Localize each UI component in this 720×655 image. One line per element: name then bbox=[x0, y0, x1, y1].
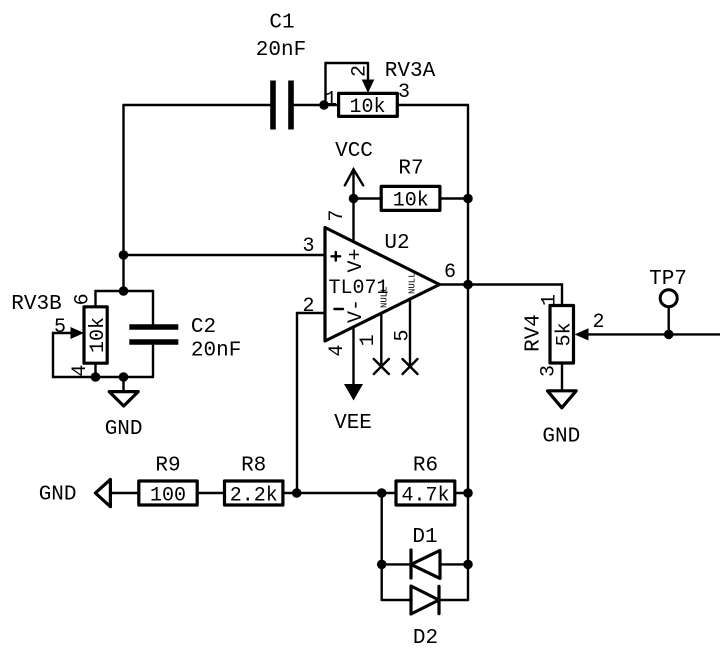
plus mark non-inverting input bbox=[332, 252, 341, 261]
wire left vertical from top corner down to input node bbox=[122, 105, 124, 291]
svg-text:C2: C2 bbox=[191, 316, 216, 339]
svg-text:TP7: TP7 bbox=[649, 268, 687, 291]
node junction C1 / RV3A pins 1-2 bbox=[319, 100, 329, 110]
wire C1 right plate to RV3A pin 1 node bbox=[294, 104, 339, 106]
node junction TP7 / wiper wire bbox=[664, 330, 674, 340]
svg-text:1: 1 bbox=[357, 334, 380, 346]
wire RV4 pin 3 stub bbox=[561, 363, 563, 391]
potentiometer RV4 bbox=[550, 306, 589, 364]
no-connect X on pin 1 bbox=[374, 359, 389, 374]
wire op-amp pin 4 down to VEE bbox=[352, 327, 354, 385]
ground symbol left GND bbox=[105, 392, 143, 441]
resistor R9 bbox=[139, 481, 197, 505]
svg-text:GND: GND bbox=[39, 484, 77, 507]
svg-text:2: 2 bbox=[349, 65, 372, 77]
wire op-amp pin 2 stub bbox=[297, 312, 325, 314]
node junction R6 left / diode branch bbox=[377, 488, 387, 498]
svg-text:V+: V+ bbox=[345, 248, 368, 272]
wire R9 to R8 bbox=[197, 492, 224, 494]
svg-text:R6: R6 bbox=[413, 455, 438, 478]
wire bottom rail to C2 bbox=[96, 376, 154, 378]
wire GND stub left bbox=[122, 377, 124, 392]
svg-text:C1: C1 bbox=[269, 12, 294, 35]
node junction GND stub on bottom rail bbox=[119, 372, 129, 382]
svg-text:R7: R7 bbox=[398, 158, 423, 181]
svg-text:3: 3 bbox=[398, 81, 410, 104]
wire TP7 stub bbox=[668, 307, 670, 334]
wire D2 right connection bbox=[439, 599, 468, 601]
svg-text:GND: GND bbox=[542, 426, 580, 449]
svg-text:5: 5 bbox=[54, 316, 66, 339]
wire GND flag to R9 bbox=[110, 492, 138, 494]
potentiometer RV3B bbox=[71, 307, 108, 363]
wire top-left horizontal from left vertical to C1 bbox=[124, 104, 271, 106]
wire op-amp pin 3 input bbox=[124, 254, 326, 256]
ground symbol right GND bbox=[542, 391, 580, 449]
svg-text:V-: V- bbox=[345, 299, 368, 323]
svg-text:4: 4 bbox=[69, 365, 92, 377]
resistor R6 bbox=[396, 481, 455, 505]
svg-text:4: 4 bbox=[326, 344, 349, 356]
node junction D1 right bbox=[463, 560, 473, 570]
svg-text:R9: R9 bbox=[155, 455, 180, 478]
minus mark inverting input bbox=[334, 308, 343, 310]
ground flag bottom-left GND bbox=[39, 479, 111, 506]
wire C2 bottom stub bbox=[152, 345, 154, 377]
wire RV3A pin 3 to right vertical net bbox=[397, 104, 468, 106]
svg-text:RV4: RV4 bbox=[523, 314, 546, 352]
wire D1 left stub bbox=[382, 563, 411, 565]
svg-text:D1: D1 bbox=[412, 526, 437, 549]
node junction R7 / right vertical bbox=[463, 194, 473, 204]
wire R7 to right vertical net bbox=[440, 197, 468, 199]
wire top rail RV3B / C2 bbox=[96, 290, 154, 292]
diode D1 bbox=[411, 550, 440, 578]
wire RV3A wiper loop: horizontal top bbox=[326, 62, 369, 64]
node junction R6 right / right vertical bbox=[463, 488, 473, 498]
svg-text:10k: 10k bbox=[393, 190, 429, 213]
test point TP7 bbox=[649, 268, 687, 307]
wire VCC node to R7 bbox=[354, 197, 382, 199]
wire RV3B pin 4 stub bbox=[94, 363, 96, 377]
svg-text:R8: R8 bbox=[241, 455, 266, 478]
svg-text:10k: 10k bbox=[349, 96, 385, 119]
wire op-amp pin 1 stub bbox=[380, 313, 382, 366]
wire output junction to RV4 corner bbox=[468, 285, 562, 306]
svg-text:RV3A: RV3A bbox=[385, 60, 436, 83]
diode D2 bbox=[411, 586, 439, 614]
wire RV3B pin 5 loop bbox=[53, 333, 96, 377]
wire C2 top stub bbox=[152, 291, 154, 324]
wire VCC node to op-amp pin 7 bbox=[352, 199, 354, 242]
svg-text:VEE: VEE bbox=[334, 412, 372, 435]
svg-text:2.2k: 2.2k bbox=[230, 485, 278, 508]
wire D1 right stub bbox=[440, 563, 468, 565]
no-connect X on pin 5 bbox=[403, 359, 418, 374]
wire RV3A wiper loop: vertical up from junction bbox=[324, 63, 326, 105]
resistor R7 bbox=[381, 186, 440, 210]
svg-text:NULL: NULL bbox=[380, 286, 390, 308]
svg-text:2: 2 bbox=[592, 311, 604, 334]
resistor R8 bbox=[225, 481, 283, 505]
svg-text:100: 100 bbox=[150, 485, 186, 508]
svg-text:6: 6 bbox=[72, 293, 95, 305]
wire RV4 wiper to TP7 node and right edge bbox=[589, 333, 720, 335]
wire bottom net pin2 junction to R6 branch bbox=[297, 492, 382, 494]
svg-text:7: 7 bbox=[326, 209, 349, 221]
node junction pin3 on left vertical bbox=[119, 250, 129, 260]
wire RV3A pin 2 stem bbox=[367, 63, 369, 82]
power symbol VEE bbox=[334, 384, 372, 435]
svg-text:10k: 10k bbox=[87, 317, 110, 353]
node junction D1 left bbox=[377, 560, 387, 570]
power symbol VCC bbox=[335, 140, 373, 199]
node junction pin2 vertical / bottom net bbox=[292, 488, 302, 498]
svg-text:1: 1 bbox=[539, 294, 562, 306]
capacitor C2 bbox=[129, 327, 178, 342]
svg-text:5k: 5k bbox=[554, 322, 577, 346]
wire D2 left connection bbox=[382, 599, 411, 601]
svg-text:20nF: 20nF bbox=[256, 39, 306, 62]
svg-text:6: 6 bbox=[444, 261, 456, 284]
wire right vertical net from RV3A corner down to D2 corner bbox=[467, 105, 469, 600]
wire op-amp pin 5 stub bbox=[409, 299, 411, 367]
node junction VCC / R7 / pin7 bbox=[349, 194, 359, 204]
svg-text:3: 3 bbox=[538, 365, 561, 377]
wire R6 left stub bbox=[382, 492, 396, 494]
svg-text:RV3B: RV3B bbox=[11, 293, 61, 316]
svg-text:U2: U2 bbox=[384, 232, 409, 255]
svg-text:2: 2 bbox=[302, 295, 314, 318]
node junction left vertical / top rail bbox=[119, 286, 129, 296]
svg-text:20nF: 20nF bbox=[191, 340, 241, 363]
svg-text:NULL: NULL bbox=[408, 272, 418, 294]
svg-text:D2: D2 bbox=[413, 627, 438, 650]
node junction output / right vertical bbox=[463, 280, 473, 290]
node junction RV3B pin4 / bottom rail bbox=[91, 372, 101, 382]
wire pin 2 vertical down to bottom net bbox=[296, 313, 298, 493]
wire RV3B pin 6 stub bbox=[94, 291, 96, 307]
wire R6 right stub bbox=[455, 492, 468, 494]
svg-text:GND: GND bbox=[105, 418, 143, 441]
wire output pin 6 to junction bbox=[440, 283, 469, 285]
wire R8 to pin2 junction bbox=[283, 492, 297, 494]
potentiometer RV3A bbox=[339, 80, 398, 117]
svg-text:4.7k: 4.7k bbox=[401, 485, 449, 508]
svg-text:VCC: VCC bbox=[335, 140, 373, 163]
svg-text:1: 1 bbox=[325, 89, 337, 112]
capacitor C1 bbox=[273, 81, 291, 130]
op-amp U2 triangle bbox=[325, 228, 440, 342]
wire diode branch left vertical bbox=[381, 493, 383, 600]
